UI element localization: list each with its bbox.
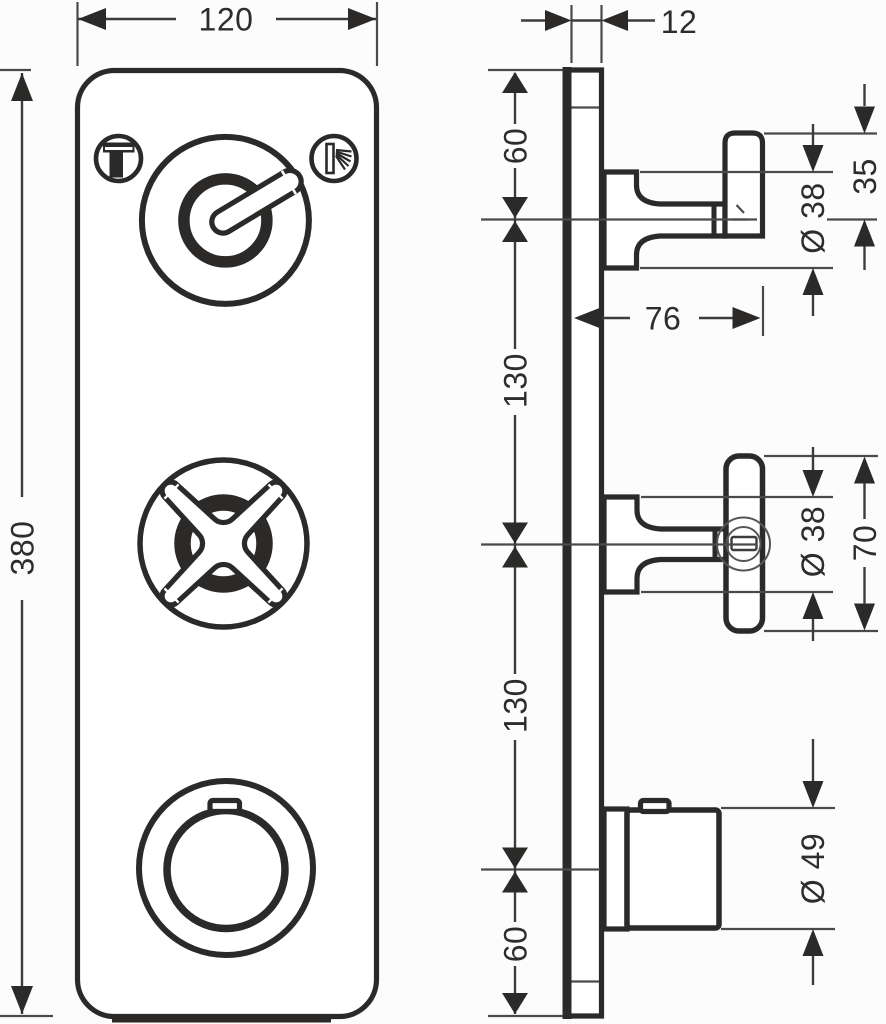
dimension 380 line — [21, 73, 23, 497]
thermostat knob safety tab — [210, 801, 240, 812]
dimension 120 extension lines — [76, 2, 78, 66]
svg-text:120: 120 — [199, 2, 254, 38]
bath spout icon T-glyph — [103, 143, 135, 178]
plate slab (side view) — [566, 70, 602, 1016]
thermostat collar (side, bottom) — [604, 809, 627, 929]
front view plate — [78, 71, 377, 1017]
centerline valve 1 — [481, 218, 757, 220]
lever handle lever — [206, 164, 306, 239]
dimension d38 middle: line+arrows — [812, 447, 814, 470]
centerline stub valve 1 right — [827, 218, 877, 220]
dimension 12 extension lines — [570, 5, 572, 63]
valve 1 stem joint line — [712, 202, 717, 239]
thermostat knob inner circle — [167, 811, 285, 929]
dimension 76 lines — [594, 317, 630, 319]
plate corner tangent line top — [572, 106, 600, 108]
plate shadow line (bottom) — [112, 1018, 331, 1023]
cross handle X-arms — [106, 426, 341, 661]
bath spout icon circle (front, top-left) — [96, 136, 141, 181]
valve 2 flange+cone+stem (side, middle) — [604, 497, 726, 592]
dimension 380 arrowheads — [11, 73, 33, 101]
centerline thermostat — [481, 868, 600, 870]
dimension 380 extension lines — [0, 69, 31, 71]
svg-text:76: 76 — [645, 301, 682, 337]
dimension 70: line+arrows — [854, 457, 875, 484]
svg-text:35: 35 — [847, 158, 883, 195]
plate corner tangent line bottom — [572, 980, 600, 982]
valve 1 flange+cone+stem (side, top) — [604, 172, 725, 268]
wall line (side view) — [563, 67, 572, 1019]
valve 1 lever reflection mark — [732, 205, 748, 220]
ref lines flange 2 (d38) — [641, 496, 833, 498]
ref lines knob (d49) — [721, 807, 835, 809]
svg-text:12: 12 — [661, 4, 698, 40]
valve 1 lever (side) — [725, 133, 763, 236]
cross handle inner ring — [183, 503, 265, 585]
dimension 12 arrowheads — [545, 10, 572, 31]
svg-text:Ø 38: Ø 38 — [795, 182, 831, 253]
dimension 120 arrowheads — [78, 8, 106, 30]
hand shower icon circle (front, top-right) — [312, 136, 357, 181]
dimension 12 lines — [521, 19, 546, 21]
dimension 76 extension line — [762, 286, 764, 336]
chain arrowheads — [502, 72, 528, 93]
ref lines pill (70) — [764, 455, 878, 457]
dimension d49: line+arrows — [812, 739, 814, 781]
ref line lever top (35) — [764, 132, 877, 134]
valve 2 hub rect — [732, 537, 757, 550]
side bottom extension line — [488, 1015, 563, 1017]
thermostat safety tab (side) — [641, 801, 670, 812]
dimension d38 top: line+arrows — [812, 124, 814, 145]
cross handle outer circle (front, middle) — [140, 460, 307, 627]
svg-text:70: 70 — [847, 525, 883, 562]
svg-text:380: 380 — [5, 521, 41, 576]
ref lines flange 1 (d38) — [640, 171, 833, 173]
valve 2 cross handle pill (side) — [726, 456, 763, 631]
dimension 120 line — [78, 18, 176, 20]
chain dimension line 60/130/130/60 — [514, 73, 516, 1014]
thermostat knob outer circle (front, bottom) — [139, 781, 313, 955]
valve 2 hub circles — [717, 518, 770, 571]
svg-text:130: 130 — [498, 678, 534, 733]
lever handle outer circle (front, top) — [142, 137, 309, 304]
dimension 76 arrowheads — [574, 307, 602, 329]
valve 2 stem joint line — [713, 527, 718, 563]
svg-text:Ø 49: Ø 49 — [795, 833, 831, 904]
svg-text:60: 60 — [498, 128, 534, 165]
lever handle inner ring — [184, 179, 267, 262]
svg-text:60: 60 — [498, 926, 534, 963]
side top extension line — [488, 69, 563, 71]
centerline valve 2 — [481, 543, 757, 545]
hand shower icon glyph — [327, 144, 352, 173]
svg-text:130: 130 — [498, 353, 534, 408]
dimension 35: line+arrows — [863, 84, 865, 106]
thermostat knob body (side) — [627, 810, 719, 928]
svg-text:Ø 38: Ø 38 — [795, 506, 831, 577]
